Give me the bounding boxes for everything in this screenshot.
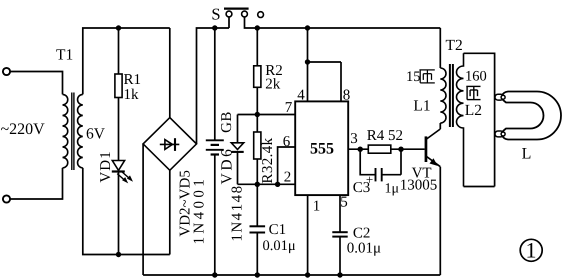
lamp pin cap bottom xyxy=(495,131,504,137)
switch S xyxy=(224,9,264,18)
svg-text:8: 8 xyxy=(343,88,351,104)
node R1 top xyxy=(116,25,121,30)
wire T2 L1 top lead xyxy=(439,28,441,68)
CJK zha glyph 1 xyxy=(419,70,434,83)
svg-text:+: + xyxy=(366,172,373,187)
diode VD6 xyxy=(237,115,239,143)
capacitor C1 xyxy=(256,184,258,226)
node R3 bottom xyxy=(255,182,260,187)
LED VD1 xyxy=(112,161,125,172)
wire pins 4 and 8 to V+ xyxy=(308,28,342,101)
svg-text:T1: T1 xyxy=(56,47,73,64)
wire bridge top (AC) xyxy=(169,28,171,118)
svg-text:15: 15 xyxy=(406,69,421,85)
wire secondary top to AC rail xyxy=(83,28,170,94)
resistor R3 xyxy=(256,115,258,133)
transistor VT collector xyxy=(426,123,440,140)
wire pin 2 net xyxy=(238,183,296,185)
capacitor C2 xyxy=(332,232,347,236)
svg-text:VD1: VD1 xyxy=(98,150,114,182)
svg-text:0.01μ: 0.01μ xyxy=(263,238,296,254)
wire pin 3 output xyxy=(348,148,424,150)
node R2 top xyxy=(255,25,260,30)
svg-text:555: 555 xyxy=(310,140,334,157)
CJK zha glyph 2 xyxy=(466,86,480,99)
ground rail wire xyxy=(143,274,440,276)
wire switch pole 1 xyxy=(228,17,230,28)
LED VD1 emission arrows xyxy=(117,172,133,184)
wire xyxy=(118,172,120,255)
wire bridge bottom (AC) xyxy=(169,170,171,254)
svg-text:160: 160 xyxy=(465,69,487,85)
node battery top xyxy=(212,25,217,30)
svg-text:C2: C2 xyxy=(353,226,371,242)
wire R2 branch xyxy=(256,28,258,66)
svg-text:1μ: 1μ xyxy=(385,182,400,197)
svg-text:4: 4 xyxy=(297,88,305,104)
svg-text:L1: L1 xyxy=(413,98,430,115)
wire switch pole 2 to V+ rail xyxy=(245,17,441,28)
node pin7/R2/R3 xyxy=(255,112,260,117)
transformer T1 secondary winding xyxy=(78,94,83,167)
wire pin 6 jog xyxy=(278,147,296,184)
svg-text:3: 3 xyxy=(350,131,358,147)
lamp pin cap top xyxy=(495,94,504,100)
svg-text:6V: 6V xyxy=(86,126,106,143)
AC input terminal top xyxy=(3,68,10,75)
wire xyxy=(256,87,258,114)
svg-text:VD6: VD6 xyxy=(219,147,236,185)
svg-text:1: 1 xyxy=(313,199,321,215)
svg-text:2: 2 xyxy=(284,170,292,186)
wire R1 branch xyxy=(118,28,120,74)
node C1 bottom xyxy=(255,272,260,277)
wire xyxy=(10,72,62,95)
svg-text:L2: L2 xyxy=(465,102,482,119)
node VD1 bottom xyxy=(116,252,121,257)
transformer T2 core xyxy=(450,64,453,127)
wire xyxy=(118,98,120,161)
wire bridge left (DC-) xyxy=(142,144,144,275)
svg-text:C1: C1 xyxy=(269,222,287,238)
node pin4 branch xyxy=(305,59,310,64)
wire bridge right (DC+) xyxy=(197,28,230,144)
transformer T2 winding L2 with leads xyxy=(456,53,463,186)
wire L2 top to lamp xyxy=(464,53,495,186)
svg-text:R1: R1 xyxy=(124,72,142,88)
capacitor C3 branch xyxy=(360,149,375,175)
svg-text:GB: GB xyxy=(219,111,235,133)
wire xyxy=(10,168,62,199)
transformer T1 core xyxy=(72,93,74,171)
wire secondary bottom xyxy=(83,168,170,255)
battery GB xyxy=(214,28,216,140)
wire emitter to ground xyxy=(439,167,441,275)
transformer T2 winding L1 xyxy=(440,68,446,123)
node battery bottom xyxy=(212,272,217,277)
svg-text:5: 5 xyxy=(340,195,348,211)
node pin6 tie xyxy=(275,182,280,187)
svg-text:7: 7 xyxy=(285,100,293,116)
wire pin 7 net xyxy=(238,114,296,116)
svg-text:1k: 1k xyxy=(124,87,140,103)
node C2 bottom xyxy=(337,272,342,277)
svg-text:1N4148: 1N4148 xyxy=(229,184,245,241)
transformer T1 primary winding xyxy=(63,94,68,167)
resistor R1 xyxy=(115,74,122,98)
svg-text:T2: T2 xyxy=(446,37,463,54)
svg-text:L: L xyxy=(522,146,532,163)
svg-text:1: 1 xyxy=(526,238,537,263)
svg-text:6: 6 xyxy=(283,134,291,150)
bridge diode symbol xyxy=(160,138,180,151)
AC input terminal bottom xyxy=(3,195,10,202)
wire L2 bottom to lamp xyxy=(464,186,495,188)
node C3 right xyxy=(398,147,403,152)
wire pin 1 to ground xyxy=(307,195,309,275)
svg-text:0.01μ: 0.01μ xyxy=(347,241,381,257)
wire pin 5 xyxy=(339,195,341,232)
svg-text:S: S xyxy=(211,5,220,24)
bridge rectifier VD2~VD5 xyxy=(143,118,196,171)
svg-text:R4 52: R4 52 xyxy=(367,128,403,144)
resistor R2 xyxy=(254,66,261,88)
transistor VT emitter xyxy=(426,156,440,167)
svg-text:~220V: ~220V xyxy=(1,121,46,138)
transistor VT base bar xyxy=(425,136,428,162)
resistor R4 xyxy=(368,145,391,153)
svg-text:13005: 13005 xyxy=(400,177,438,193)
node C3 left xyxy=(358,147,363,152)
svg-text:R32.4k: R32.4k xyxy=(260,137,276,183)
node pin1 bottom xyxy=(305,272,310,277)
figure number circle xyxy=(520,239,542,261)
fluorescent tube L xyxy=(502,92,561,140)
svg-text:2k: 2k xyxy=(265,77,281,93)
timer IC 555 xyxy=(295,101,348,195)
node 555 supply xyxy=(305,25,310,30)
svg-text:1N4001: 1N4001 xyxy=(191,176,207,245)
